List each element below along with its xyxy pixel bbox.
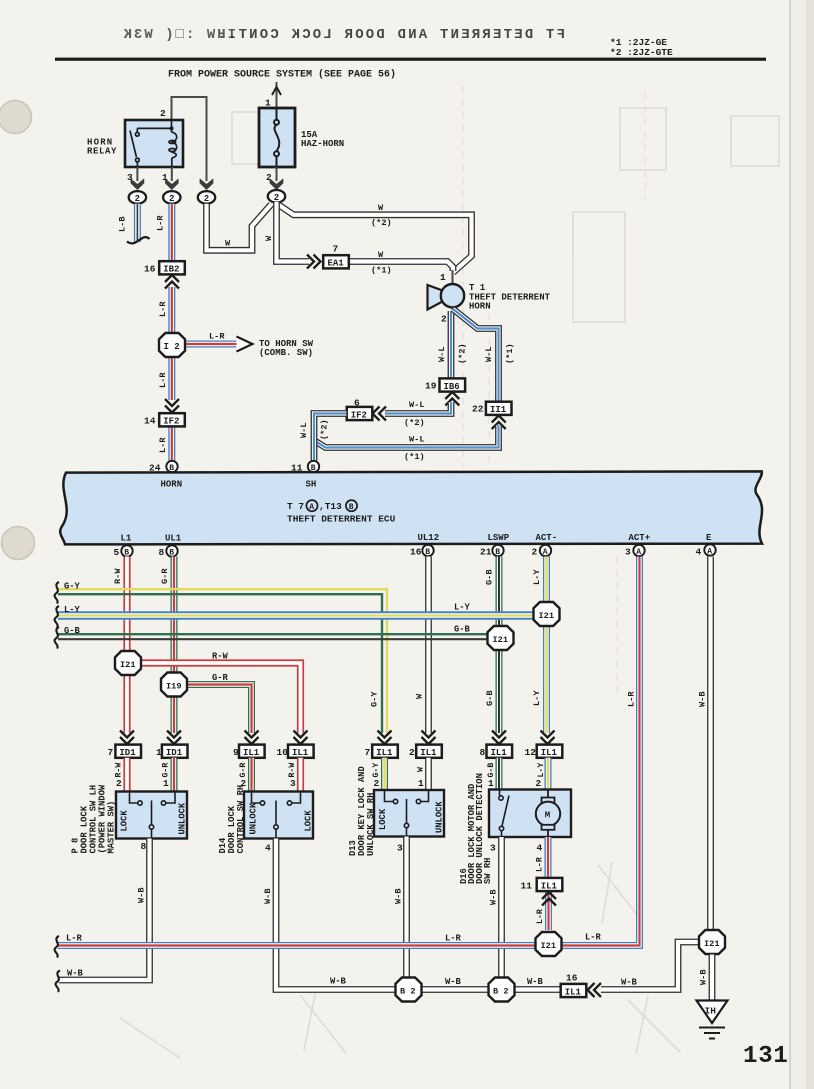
- connector IB6: [440, 378, 466, 391]
- svg-text:B: B: [124, 549, 129, 558]
- svg-text:I19: I19: [166, 681, 181, 691]
- svg-text:ACT-: ACT-: [536, 533, 558, 543]
- wire W oval C to oval D network: [207, 204, 272, 251]
- svg-text:W: W: [264, 235, 274, 241]
- svg-text:1: 1: [440, 272, 446, 283]
- chevrons under IB6: [445, 392, 459, 406]
- D16 label block: [459, 773, 493, 884]
- wire W-B from B2 to 16 IL1 and up to I21: [513, 942, 700, 990]
- svg-text:8: 8: [480, 747, 486, 758]
- wire R-W pin5 L1 down: [123, 557, 130, 734]
- fuse 15A HAZ-HORN feed wire: [276, 82, 278, 108]
- svg-text:21: 21: [480, 547, 492, 558]
- chevrons into 10 IL1: [294, 731, 308, 745]
- connector 8 IL1: [487, 745, 513, 758]
- wire W-B between B2 junctions: [420, 986, 490, 993]
- connector 1 ID1: [162, 745, 188, 758]
- chevrons into 16 IL1: [588, 983, 602, 997]
- svg-text:G-B: G-B: [64, 626, 81, 636]
- svg-text:2: 2: [274, 193, 279, 203]
- svg-text:4: 4: [265, 843, 271, 854]
- svg-text:(*2): (*2): [404, 418, 425, 428]
- ECU title T7(A),T13(B): [287, 500, 357, 512]
- svg-text:II1: II1: [490, 405, 507, 415]
- svg-text:W: W: [225, 239, 231, 249]
- svg-text:W: W: [417, 767, 426, 772]
- svg-text:L-R: L-R: [209, 332, 225, 342]
- svg-text:7: 7: [333, 244, 339, 255]
- svg-text:IHW :□( W3K: IHW :□( W3K: [122, 27, 236, 43]
- junction I21 on L-R bus: [536, 932, 562, 956]
- svg-text:B: B: [425, 548, 430, 557]
- junction I21 on L-Y: [534, 602, 560, 626]
- svg-text:SH: SH: [306, 480, 317, 490]
- horn pin2 stub: [452, 307, 454, 313]
- svg-text:LOCK: LOCK: [120, 810, 130, 832]
- svg-text:1: 1: [488, 778, 494, 789]
- svg-text:UL12: UL12: [418, 533, 440, 543]
- connector 10 IL1: [288, 745, 314, 758]
- svg-text:G-B: G-B: [485, 691, 495, 706]
- svg-text:2: 2: [160, 108, 166, 119]
- svg-text:I21: I21: [120, 660, 135, 670]
- svg-text:IB2: IB2: [163, 265, 179, 275]
- svg-text:9: 9: [233, 747, 239, 758]
- up arrow on feed wire: [272, 87, 281, 95]
- stub R-W ID1 to P8 pin2: [123, 758, 130, 792]
- svg-text:W-B: W-B: [621, 978, 638, 988]
- svg-text:G-B: G-B: [454, 625, 471, 635]
- wire: relay pin2 to node over oval C: [172, 97, 207, 181]
- chevrons under II1: [492, 416, 506, 430]
- svg-text:14: 14: [144, 416, 156, 427]
- svg-text:W-B: W-B: [489, 890, 499, 905]
- wire G-R pin8 UL1 down: [171, 557, 178, 734]
- svg-text:L-R: L-R: [158, 372, 168, 388]
- switch D14 door lock control sw RH box: [244, 792, 313, 839]
- stub W 2 IL1 to D13 pin1: [425, 758, 432, 791]
- svg-text:LSWP: LSWP: [488, 533, 510, 543]
- svg-text:W-B: W-B: [394, 889, 404, 904]
- band bottom pin names: [121, 533, 713, 544]
- svg-text:G-R: G-R: [160, 568, 170, 584]
- note *1 2JZ-GE / *2 2JZ-GTE: [610, 37, 673, 58]
- svg-text:A: A: [543, 548, 548, 557]
- svg-text:EA1: EA1: [328, 259, 345, 269]
- svg-text:3: 3: [625, 547, 631, 558]
- stub G-Y 7 IL1 to D13 pin2: [381, 758, 388, 791]
- faint ghost marks: [120, 108, 779, 1058]
- svg-text:G-R: G-R: [212, 673, 229, 683]
- svg-text:L-R: L-R: [445, 934, 462, 944]
- relay internal switch: [130, 128, 172, 167]
- octagon I2: [159, 333, 185, 357]
- P8 label block: [71, 784, 117, 853]
- branch R-W from I21 to 10 IL1: [141, 663, 301, 733]
- oval connector A: [129, 191, 146, 204]
- svg-text:W-B: W-B: [330, 977, 347, 987]
- wire W-B from P8 pin8 to left margin: [59, 839, 150, 981]
- wire W (*1) oval D via EA1 to horn pin 1: [277, 202, 454, 271]
- svg-text:12: 12: [525, 747, 537, 758]
- svg-text:UNLOCK: UNLOCK: [178, 802, 188, 834]
- svg-text:L-R: L-R: [585, 933, 602, 943]
- svg-text:G-R: G-R: [239, 763, 248, 778]
- cut squiggle on L-B: [127, 237, 150, 243]
- connector IF2 (6): [347, 407, 373, 420]
- wire L-R bus from left margin to ACT+: [58, 557, 640, 946]
- svg-text:FROM POWER SOURCE SYSTEM (SEE: FROM POWER SOURCE SYSTEM (SEE PAGE 56): [168, 69, 396, 81]
- svg-text:G-R: G-R: [162, 763, 171, 778]
- svg-text:A: A: [309, 503, 314, 512]
- junction I21 on G-B: [488, 626, 514, 650]
- wire L-Y pin2 ACT- down: [543, 557, 550, 734]
- svg-text:B: B: [495, 548, 500, 557]
- chevrons down into IF2 (14): [165, 399, 179, 413]
- svg-text:MASTER SW): MASTER SW): [107, 801, 117, 854]
- arrow into oval D: [270, 179, 283, 190]
- connector IF2 (14): [159, 413, 185, 426]
- svg-text:W-L: W-L: [409, 435, 424, 445]
- svg-text:L-Y: L-Y: [532, 569, 542, 585]
- svg-text:L-R: L-R: [536, 909, 545, 924]
- arrow into oval C: [200, 179, 213, 190]
- svg-text:LOCK: LOCK: [378, 808, 388, 830]
- relay coil: [169, 120, 177, 167]
- wire L-R oval B to IB2: [168, 204, 175, 262]
- svg-text:IL1: IL1: [376, 748, 393, 758]
- svg-text:IF2: IF2: [351, 410, 367, 420]
- svg-text:W-B: W-B: [67, 969, 84, 979]
- svg-text:22: 22: [472, 404, 484, 415]
- svg-text:3: 3: [290, 778, 296, 789]
- wire W-L IF2 to ECU pin 11 SH: [314, 414, 347, 461]
- wire W-B from D13 pin3 to B2: [403, 837, 410, 979]
- stub R-W 10 IL1 to D14 pin3: [297, 758, 304, 792]
- wire L-R from D16 pin4 to 11 IL1 to I21: [545, 837, 553, 930]
- arrow into oval A: [131, 179, 144, 190]
- svg-text:M: M: [545, 811, 550, 821]
- wire W pin16 UL12 down: [425, 557, 432, 734]
- D13 label block: [348, 766, 376, 856]
- connector 9 IL1: [239, 745, 265, 758]
- svg-text:L-Y: L-Y: [64, 605, 81, 615]
- D14 label block: [218, 785, 246, 854]
- svg-text:W-L: W-L: [409, 400, 424, 410]
- svg-text:ID1: ID1: [119, 748, 136, 758]
- svg-text:2: 2: [532, 547, 538, 558]
- svg-text:IB6: IB6: [444, 382, 460, 392]
- svg-text:HAZ-HORN: HAZ-HORN: [301, 139, 344, 149]
- svg-text:131: 131: [743, 1043, 789, 1070]
- svg-text:W-B: W-B: [698, 692, 708, 707]
- hole punch mid-left: [2, 527, 35, 560]
- svg-text:W-B: W-B: [263, 889, 273, 904]
- svg-text:E: E: [706, 533, 712, 543]
- svg-text:1: 1: [156, 747, 162, 758]
- svg-text:W-B: W-B: [137, 888, 147, 903]
- svg-text:IF2: IF2: [163, 417, 179, 427]
- chevrons into EA1: [307, 255, 321, 269]
- chevrons into 7 IL1: [378, 731, 392, 745]
- svg-text:2: 2: [374, 778, 380, 789]
- bus G-Y from left margin, turns down to 7 IL1: [58, 589, 387, 733]
- svg-text:2: 2: [116, 778, 122, 789]
- wire W-L (*1) horn pin2 to II1: [453, 309, 499, 402]
- svg-text:3: 3: [490, 843, 496, 854]
- bus G-B from left margin to I21 on LSWP: [58, 634, 489, 639]
- ghost bleed-through header (mirrored): [215, 27, 565, 43]
- svg-text:19: 19: [425, 381, 437, 392]
- svg-text:L-B: L-B: [118, 217, 128, 232]
- stub G-R 9 IL1 to D14 pin2: [248, 758, 255, 792]
- svg-text:(*1): (*1): [404, 452, 425, 462]
- junction I19 on G-R: [161, 673, 187, 697]
- chevrons into 12 IL1: [541, 731, 555, 745]
- svg-text:2: 2: [409, 747, 415, 758]
- svg-text:B 2: B 2: [493, 986, 508, 996]
- connector II1 (22): [486, 402, 512, 415]
- bus L-Y from left margin to I21 on ACT-: [58, 611, 535, 620]
- fuse element: [274, 108, 279, 167]
- svg-text:LOCK: LOCK: [304, 810, 314, 832]
- svg-text:L-R: L-R: [627, 691, 637, 707]
- branch G-R from I19 to 9 IL1: [187, 685, 252, 734]
- svg-text:W-B: W-B: [445, 977, 462, 987]
- svg-text:IH: IH: [705, 1006, 717, 1017]
- horn T1 pin1 stub: [452, 270, 454, 285]
- connector 12 IL1: [537, 745, 563, 758]
- svg-text:W: W: [378, 203, 384, 213]
- svg-text:1: 1: [163, 778, 169, 789]
- svg-text:I21: I21: [541, 941, 556, 951]
- svg-text:I21: I21: [539, 611, 554, 621]
- wire W-L (*2) horn pin2 down to IB6: [448, 311, 455, 378]
- chevrons into 7 ID1: [120, 731, 134, 745]
- svg-text:(*1): (*1): [371, 266, 392, 276]
- svg-text:L-Y: L-Y: [532, 690, 542, 706]
- svg-text:G-Y: G-Y: [370, 691, 380, 707]
- svg-text:G-B: G-B: [485, 570, 495, 585]
- svg-text:R-W: R-W: [212, 652, 229, 662]
- svg-text:IL1: IL1: [420, 748, 437, 758]
- oval connector B: [163, 191, 180, 204]
- svg-text:*2 :2JZ-GTE: *2 :2JZ-GTE: [610, 47, 673, 58]
- fuse pin 2 stub: [276, 167, 278, 181]
- svg-text:G-B: G-B: [487, 763, 496, 778]
- switch D13 door key lock and unlock sw RH box: [374, 790, 444, 837]
- wire W (*2) oval D to horn pin 1: [277, 204, 472, 273]
- svg-text:8: 8: [159, 547, 165, 558]
- svg-text:L-Y: L-Y: [454, 603, 471, 613]
- relay pin 1 stub: [171, 167, 173, 181]
- svg-text:I21: I21: [704, 939, 719, 949]
- junction B2 right: [489, 978, 515, 1002]
- svg-text:(*2): (*2): [371, 218, 392, 228]
- svg-text:W-L: W-L: [299, 423, 309, 438]
- chevrons under 11 IL1: [542, 892, 556, 906]
- open arrow to horn sw: [237, 337, 253, 352]
- svg-text:B 2: B 2: [400, 986, 415, 996]
- chevrons into 2 IL1: [422, 731, 436, 745]
- theft deterrent horn T1: [428, 285, 443, 310]
- wire W-L (*1) II1 down-left joining SH drop: [315, 425, 499, 448]
- svg-text:IL1: IL1: [541, 748, 558, 758]
- svg-text:10: 10: [277, 747, 289, 758]
- svg-text:L-Y: L-Y: [537, 763, 546, 778]
- wire W-B from D14 pin4 to B2: [276, 839, 397, 990]
- svg-text:L-R: L-R: [158, 301, 168, 317]
- svg-text:L-R: L-R: [66, 934, 83, 944]
- chevrons into 1 ID1: [167, 731, 181, 745]
- wire W-B pin4 E down: [707, 557, 714, 931]
- wire G-B pin21 LSWP down: [496, 557, 503, 734]
- svg-text:CONTROL SW RH: CONTROL SW RH: [236, 785, 246, 854]
- horn relay R1 box: [125, 120, 183, 167]
- svg-text:L-R: L-R: [158, 437, 168, 453]
- svg-text:B: B: [169, 549, 174, 558]
- svg-text:3: 3: [397, 843, 403, 854]
- svg-text:2: 2: [169, 194, 174, 204]
- svg-text:4: 4: [537, 843, 543, 854]
- ground IH: [697, 1001, 728, 1024]
- svg-text:2: 2: [204, 194, 209, 204]
- svg-text:(*1): (*1): [505, 343, 515, 364]
- switch P8 door lock control sw LH box: [116, 792, 187, 839]
- svg-text:7: 7: [108, 747, 114, 758]
- svg-text:RELAY: RELAY: [87, 147, 117, 157]
- svg-text:A: A: [707, 548, 712, 557]
- connector IB2 (16): [159, 261, 185, 274]
- svg-text:T 7: T 7: [287, 501, 304, 512]
- svg-text:R-W: R-W: [288, 763, 297, 778]
- svg-text:ACT+: ACT+: [629, 533, 651, 543]
- svg-text:B: B: [349, 503, 354, 512]
- svg-text:I 2: I 2: [164, 342, 180, 352]
- svg-text:HORN: HORN: [161, 480, 183, 490]
- motor M: [536, 790, 560, 838]
- wire W-L (*2) IB6 down-left to IF2: [385, 402, 451, 414]
- junction I21 on R-W: [115, 651, 141, 675]
- wire W-B from D16 pin3 to B2: [498, 837, 505, 978]
- oval connector D: [268, 190, 285, 203]
- connector EA1: [323, 255, 349, 268]
- svg-text:6: 6: [354, 398, 360, 409]
- svg-text:HORN: HORN: [469, 302, 491, 312]
- svg-text:IL1: IL1: [541, 881, 558, 891]
- svg-text:2: 2: [135, 194, 140, 204]
- svg-text:I21: I21: [493, 635, 508, 645]
- svg-text:W: W: [415, 693, 425, 699]
- connector 7 IL1: [372, 745, 398, 758]
- svg-text:(*2): (*2): [458, 343, 468, 364]
- svg-text:1: 1: [418, 778, 424, 789]
- svg-text:L1: L1: [121, 534, 132, 544]
- relay pin 3 stub: [136, 167, 138, 181]
- curl G-Y: [55, 582, 59, 604]
- svg-text:L-R: L-R: [156, 215, 166, 231]
- svg-text:IL1: IL1: [565, 987, 582, 997]
- svg-text:16: 16: [566, 973, 578, 984]
- svg-text:W-L: W-L: [484, 347, 494, 362]
- svg-text:UNLOCK: UNLOCK: [249, 802, 259, 834]
- svg-text:UNLOCK SW RH: UNLOCK SW RH: [366, 793, 376, 856]
- svg-text:5: 5: [114, 547, 120, 558]
- fuse 15A HAZ-HORN box: [259, 108, 295, 167]
- stub G-R ID1 to P8 pin1: [171, 758, 178, 792]
- svg-text:G-Y: G-Y: [64, 582, 81, 592]
- svg-text:IL1: IL1: [491, 748, 508, 758]
- svg-text:L-R: L-R: [536, 857, 545, 872]
- svg-text:16: 16: [410, 547, 422, 558]
- wire L-R IB2 to I2 to IF2 to ECU pin 24: [168, 287, 175, 461]
- connector 2 IL1: [416, 745, 442, 758]
- arrow into oval B: [165, 179, 178, 190]
- svg-text:W-B: W-B: [699, 970, 709, 985]
- svg-text:UNLOCK: UNLOCK: [435, 801, 445, 833]
- chevrons under IB2: [165, 275, 179, 289]
- svg-text:(COMB. SW): (COMB. SW): [259, 348, 313, 358]
- theft deterrent ECU band: [60, 471, 762, 544]
- svg-text:16: 16: [144, 264, 156, 275]
- svg-text:11: 11: [521, 881, 533, 892]
- svg-text:4: 4: [696, 547, 702, 558]
- svg-text:ID1: ID1: [166, 748, 183, 758]
- svg-text:SW RH: SW RH: [483, 858, 493, 884]
- hole punch top-left: [0, 101, 32, 134]
- chevrons into 8 IL1: [492, 731, 506, 745]
- connector 7 ID1: [115, 745, 141, 758]
- junction I21 on E wire: [699, 930, 725, 954]
- svg-text:W-L: W-L: [437, 347, 447, 362]
- wire L-B stub below oval A: [134, 204, 141, 242]
- svg-text:A: A: [636, 548, 641, 557]
- oval connector C: [198, 191, 215, 204]
- svg-text:W: W: [378, 250, 384, 260]
- svg-text:UL1: UL1: [165, 534, 182, 544]
- svg-text:THEFT DETERRENT ECU: THEFT DETERRENT ECU: [287, 514, 396, 525]
- junction I2 branch to horn switch: [184, 341, 237, 348]
- top heavy rule: [55, 58, 766, 61]
- switch+motor D16 door lock motor box: [489, 790, 571, 838]
- svg-text:G-Y: G-Y: [372, 763, 381, 778]
- svg-text:IL1: IL1: [243, 748, 260, 758]
- svg-text:IL1: IL1: [292, 748, 309, 758]
- svg-text:(*2): (*2): [320, 419, 330, 440]
- svg-text:FT DETERRENT AND DOOR LOCK CON: FT DETERRENT AND DOOR LOCK CONT..: [215, 27, 565, 43]
- svg-text:2: 2: [536, 778, 542, 789]
- junction B2 left: [396, 978, 422, 1002]
- svg-text:2: 2: [441, 314, 447, 325]
- svg-text:R-W: R-W: [113, 568, 123, 584]
- wire W-B from I21 to ground: [709, 955, 716, 1001]
- stub G-B 8 IL1 to D16 pin1: [496, 758, 503, 790]
- svg-text:8: 8: [141, 841, 147, 852]
- svg-text:R-W: R-W: [115, 763, 124, 778]
- stub L-Y 12 IL1 to D16 pin2: [545, 758, 552, 790]
- svg-text:T 1: T 1: [469, 283, 486, 293]
- chevrons into IF2 right side: [373, 407, 387, 421]
- svg-text:7: 7: [365, 747, 371, 758]
- svg-text:W-B: W-B: [527, 977, 544, 987]
- svg-text:,T13: ,T13: [319, 501, 342, 512]
- chevrons into 9 IL1: [245, 731, 259, 745]
